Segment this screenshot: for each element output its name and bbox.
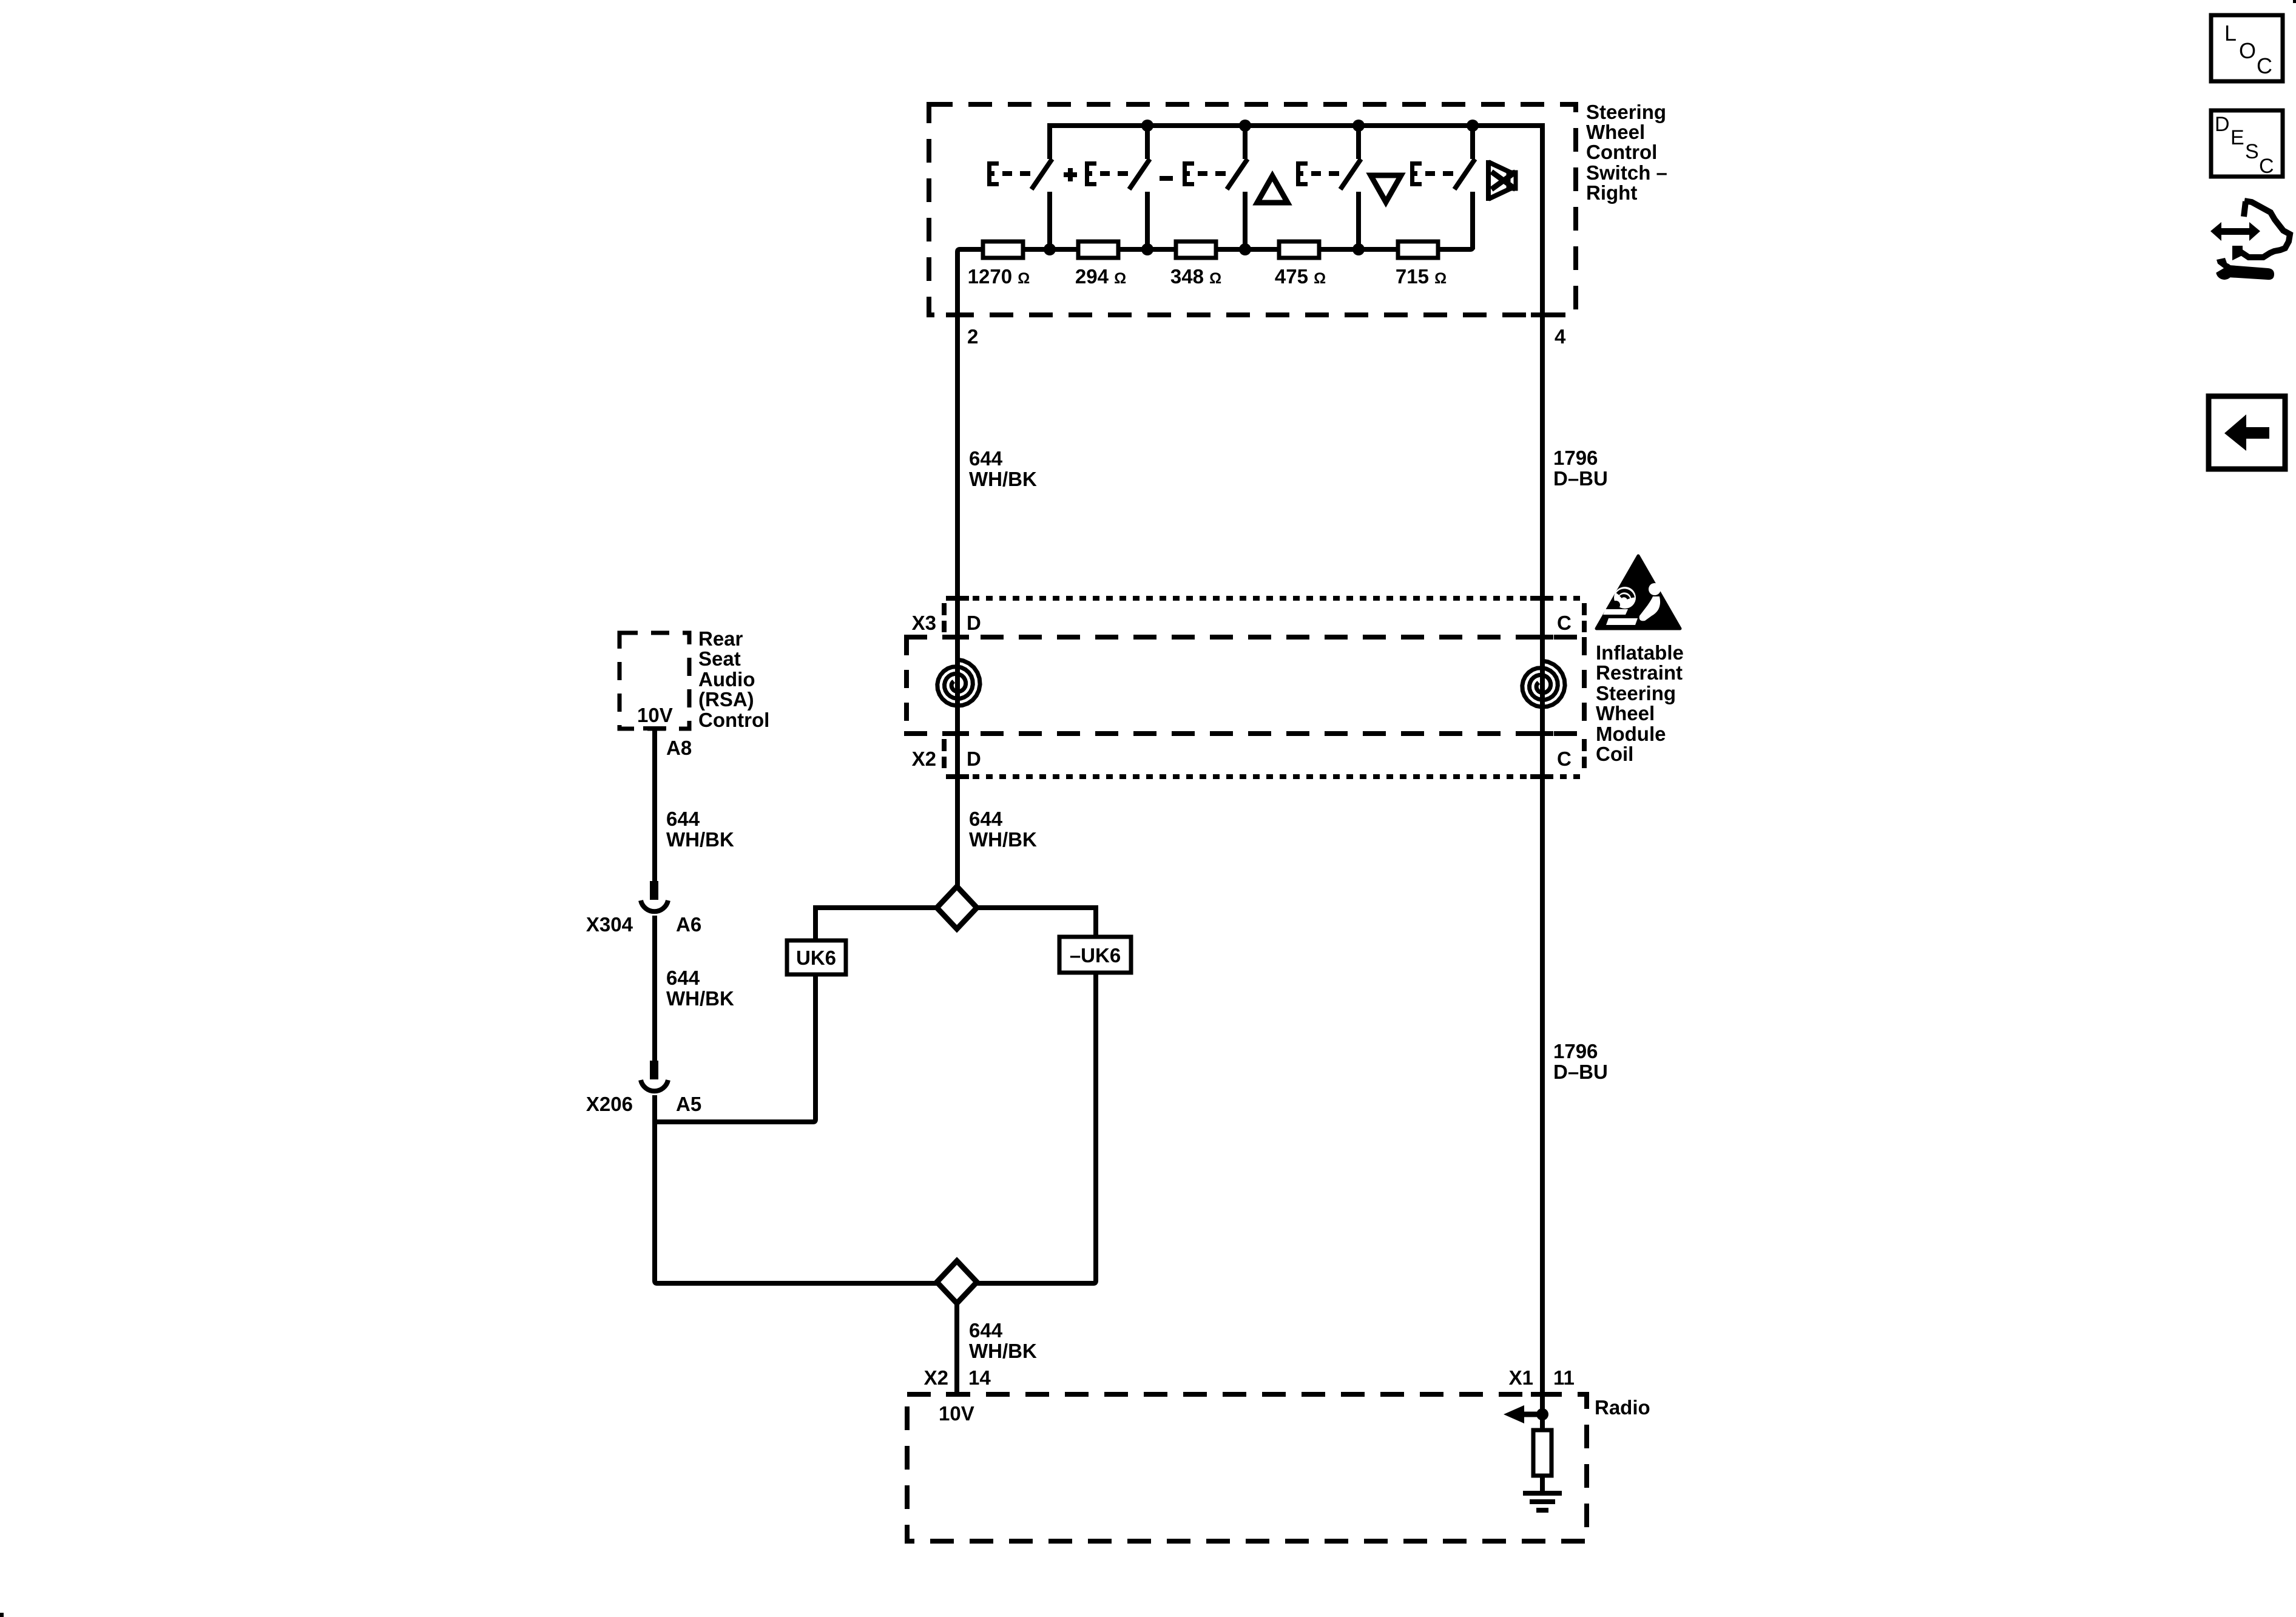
svg-text:Switch –: Switch – [1586, 161, 1667, 184]
svg-text:D–BU: D–BU [1553, 467, 1608, 490]
svg-text:Steering: Steering [1586, 101, 1666, 123]
svg-text:A5: A5 [676, 1093, 701, 1115]
svg-text:C: C [1557, 612, 1572, 634]
svg-text:–UK6: –UK6 [1070, 944, 1121, 967]
svg-text:Radio: Radio [1595, 1396, 1650, 1419]
svg-text:Coil: Coil [1596, 743, 1633, 765]
svg-text:D–BU: D–BU [1553, 1061, 1608, 1083]
svg-text:E: E [2230, 126, 2244, 149]
svg-text:Module: Module [1596, 723, 1666, 745]
svg-text:11: 11 [1553, 1366, 1575, 1389]
svg-text:Restraint: Restraint [1596, 661, 1683, 684]
svg-text:Audio: Audio [698, 668, 755, 690]
svg-text:Rear: Rear [698, 627, 743, 650]
svg-text:Control: Control [698, 709, 769, 731]
svg-text:Control: Control [1586, 141, 1657, 163]
svg-text:WH/BK: WH/BK [969, 468, 1037, 490]
svg-text:D: D [967, 612, 981, 634]
svg-text:A6: A6 [676, 913, 701, 936]
svg-text:1796: 1796 [1553, 1040, 1598, 1062]
svg-text:D: D [967, 748, 981, 770]
svg-text:644: 644 [666, 808, 700, 830]
svg-text:X3: X3 [912, 612, 936, 634]
svg-text:644: 644 [666, 967, 700, 989]
svg-text:WH/BK: WH/BK [666, 828, 734, 851]
svg-text:X304: X304 [586, 913, 633, 936]
svg-text:S: S [2245, 140, 2259, 163]
svg-text:Steering: Steering [1596, 682, 1676, 704]
svg-text:Inflatable: Inflatable [1596, 641, 1684, 664]
svg-text:WH/BK: WH/BK [666, 987, 734, 1010]
svg-text:A8: A8 [666, 737, 692, 759]
svg-text:L: L [2224, 21, 2237, 46]
svg-text:644: 644 [969, 447, 1003, 470]
svg-text:Right: Right [1586, 181, 1637, 204]
svg-text:O: O [2239, 38, 2256, 63]
svg-text:(RSA): (RSA) [698, 688, 754, 711]
svg-text:WH/BK: WH/BK [969, 828, 1037, 851]
svg-text:10V: 10V [637, 704, 673, 726]
svg-text:D: D [2215, 113, 2230, 136]
svg-text:X206: X206 [586, 1093, 633, 1115]
svg-text:X2: X2 [912, 748, 936, 770]
svg-text:644: 644 [969, 1319, 1003, 1342]
svg-text:Wheel: Wheel [1596, 702, 1655, 724]
svg-text:Wheel: Wheel [1586, 121, 1645, 143]
svg-text:X1: X1 [1509, 1366, 1533, 1389]
svg-text:UK6: UK6 [796, 947, 836, 969]
svg-text:1796: 1796 [1553, 447, 1598, 469]
svg-text:644: 644 [969, 808, 1003, 830]
svg-text:2: 2 [967, 325, 978, 348]
svg-text:WH/BK: WH/BK [969, 1340, 1037, 1362]
svg-text:X2: X2 [924, 1366, 948, 1389]
svg-text:10V: 10V [939, 1402, 974, 1425]
svg-text:C: C [2257, 53, 2272, 78]
svg-text:4: 4 [1555, 325, 1566, 348]
svg-text:Seat: Seat [698, 647, 741, 670]
svg-text:14: 14 [968, 1366, 991, 1389]
svg-text:C: C [2259, 155, 2274, 178]
svg-text:C: C [1557, 748, 1572, 770]
